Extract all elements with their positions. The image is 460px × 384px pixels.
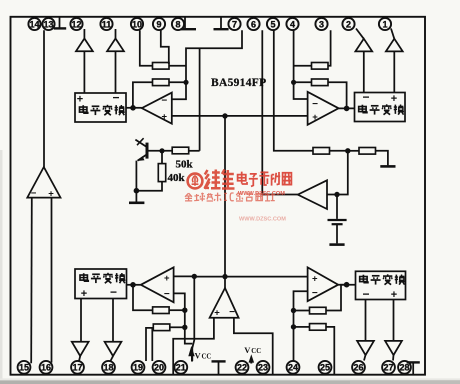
pin 9 (153, 18, 165, 30)
svg-text:6: 6 (251, 19, 256, 29)
pin 1 (379, 18, 391, 30)
output node dot (344, 282, 350, 288)
resistor 40k (vertical) (161, 151, 163, 164)
svg-text:−: − (112, 91, 119, 105)
svg-text:11: 11 (102, 19, 112, 29)
pin 3 (315, 18, 327, 30)
wire pin12 to buffer B1 (83, 29, 85, 39)
svg-text:+: + (48, 189, 54, 200)
wire pin9 jog to RA right (161, 30, 169, 64)
buffer B7 (down) (357, 341, 374, 355)
pin 2 (342, 18, 354, 30)
node dots on pin24 riser (291, 308, 296, 313)
svg-text:−: − (362, 287, 369, 301)
svg-text:−: − (110, 285, 117, 299)
wire R4 to output (328, 82, 347, 108)
watermark logo circle (188, 174, 203, 189)
svg-text:28: 28 (399, 363, 409, 373)
pin 14 (28, 18, 40, 30)
buffer B6 (down) (105, 342, 122, 356)
resistor 50k (172, 147, 189, 154)
svg-text:+: + (312, 273, 318, 284)
svg-text:40k: 40k (168, 172, 186, 184)
buffer B3 (up) (355, 39, 372, 52)
emitter junction dot (134, 188, 140, 194)
wire B6 to pin18 (111, 356, 114, 361)
resistor R8 input (310, 324, 327, 331)
svg-text:25: 25 (320, 363, 330, 373)
svg-text:23: 23 (258, 363, 268, 373)
pin 13 (42, 18, 54, 30)
pin 19 (132, 361, 145, 374)
wire R7 to output (326, 285, 347, 311)
pin 22 (236, 361, 249, 374)
wire 50k line from bus (199, 48, 201, 151)
svg-text:V: V (195, 350, 202, 360)
resistor RA (153, 63, 170, 70)
svg-text:27: 27 (383, 363, 393, 373)
minus input wire to riser (174, 293, 193, 343)
buffer B1 (up) (76, 39, 93, 52)
resistor R5 feedback (153, 307, 170, 314)
wire pin20 riser (151, 328, 153, 361)
wire pin2 to buffer B3 (356, 29, 364, 39)
pin 10 (131, 18, 143, 30)
op-amp U2 (points left) (142, 93, 172, 124)
pin 8 (172, 18, 184, 30)
resistor R7 feedback (310, 307, 327, 314)
wire pin10 down to RA (140, 30, 153, 66)
op-amp U8 (apex up) (210, 288, 239, 318)
svg-text:−: − (164, 289, 170, 300)
wire buffer B1 to box (83, 51, 85, 93)
NC tick before pin 7 (214, 18, 229, 30)
wire box to buffer B7 (365, 300, 367, 341)
wire output to box (339, 107, 355, 109)
output node dot (130, 105, 136, 111)
resistor R4 feedback (312, 79, 329, 86)
svg-text:+: + (162, 112, 168, 123)
level shifter U5 box (355, 90, 406, 121)
resistor R6 input (153, 324, 170, 331)
svg-text:+: + (312, 112, 318, 123)
buffer B4 (up) (386, 39, 403, 52)
ground G3 (329, 243, 344, 246)
svg-text:+: + (164, 273, 170, 284)
pin 12 (70, 18, 82, 30)
op-amp A1 labels (31, 188, 55, 200)
watermark big text 维库 (204, 170, 235, 189)
pin 11 (100, 18, 112, 30)
wire dot to R8 (294, 326, 310, 328)
svg-text:BA5914FP: BA5914FP (211, 77, 266, 89)
U8 left leg to frame (173, 318, 214, 374)
Vcc arrow left (188, 346, 194, 356)
svg-text:V: V (244, 345, 251, 355)
NC tick after pin 13 (54, 18, 66, 29)
resistor RB (feedback) (153, 79, 170, 86)
op-amp U4 (points right) (308, 92, 339, 125)
wire box to buffer B5 (80, 299, 82, 342)
bias dot BL (192, 274, 197, 279)
level shifter U10 box (356, 271, 406, 301)
pin 6 (247, 18, 259, 30)
wire output to box (338, 284, 355, 286)
svg-text:3: 3 (319, 19, 324, 29)
svg-text:2: 2 (346, 19, 351, 29)
watermark text 电子市场网 (238, 171, 292, 186)
bias rail horizontal (194, 276, 307, 278)
wire node X2 to R4 (294, 81, 312, 83)
ground G2 (380, 165, 395, 168)
resistor R1 divider (313, 148, 330, 155)
svg-text:24: 24 (288, 363, 298, 373)
emitter wire down (135, 161, 137, 191)
op-amp U9 (points right) (308, 267, 339, 301)
svg-text:−: − (31, 188, 37, 199)
wire to op-amp U8 apex (224, 277, 226, 288)
pin 5 (267, 18, 279, 30)
Q1 emitter with arrow (138, 154, 147, 160)
pin 20 (153, 361, 166, 374)
pin 21 (174, 361, 187, 374)
wire R2 to ground G2 (376, 151, 388, 166)
wire node N down to buffer input (327, 151, 348, 195)
wire R5 to dot (169, 309, 185, 311)
wire box to buffer B6 (112, 299, 114, 342)
wire pin6 down to buffer output (262, 30, 298, 194)
svg-text:+: + (81, 288, 87, 300)
bus wire pins 7/6 region (172, 30, 242, 99)
wire pin24 riser to minus input (294, 291, 308, 361)
svg-text:19: 19 (133, 363, 143, 373)
pin 24 (287, 361, 300, 374)
ground G1 (135, 191, 137, 202)
resistor R3 input (312, 63, 329, 70)
wire R3 to pin3 (328, 30, 331, 66)
svg-text:−: − (312, 288, 318, 299)
cap node dot (334, 192, 339, 197)
pin 15 (18, 361, 31, 374)
wire box to op-amp U7 (127, 284, 141, 286)
svg-text:12: 12 (71, 19, 81, 29)
NC tick after pin 8 (181, 18, 196, 30)
svg-text:50k: 50k (176, 159, 194, 171)
svg-text:15: 15 (19, 363, 29, 373)
svg-text:+: + (214, 308, 220, 319)
wire RA to node X (169, 65, 186, 67)
transistor Q1 base bar (146, 143, 149, 159)
watermark slogan line (185, 192, 275, 201)
svg-text:CC: CC (202, 353, 212, 360)
wire box to buffer B8 (393, 300, 395, 341)
wire dot to R7 (294, 310, 310, 312)
level shifter U1 box (75, 91, 126, 123)
wire 50k to riser (189, 150, 200, 152)
wire B5 to pin17 (79, 356, 80, 361)
wire RB to node X (169, 81, 186, 83)
svg-text:21: 21 (176, 363, 186, 373)
wire node N to R2 (348, 150, 359, 152)
wire node to R3 (294, 65, 312, 67)
wire buffer B2 to box (115, 51, 117, 93)
svg-text:7: 7 (232, 19, 237, 29)
op-amp U3 (points left) (298, 180, 327, 209)
svg-text:16: 16 (41, 363, 51, 373)
op-amp A1 (large, apex up) (27, 167, 60, 198)
wire pin5 down to divider (274, 30, 313, 151)
plus input wire to bias dot (174, 275, 195, 277)
wire R6 to dot (170, 326, 185, 328)
wire pin1 to buffer B4 (391, 29, 394, 39)
pin 18 (102, 361, 115, 374)
buffer B2 (up) (107, 39, 124, 52)
wire B7 to pin26 (364, 355, 366, 361)
svg-text:22: 22 (237, 363, 247, 373)
wire B8 to pin27 (392, 355, 395, 361)
wire pin13 to amp output (43, 30, 45, 167)
pin 23 (257, 361, 270, 374)
pin 7 (228, 18, 240, 30)
bias dot mid (222, 274, 227, 279)
NC tick right of pin 28 (407, 362, 420, 374)
output node dot (130, 282, 136, 288)
wire pin19 to R6 (146, 328, 153, 361)
bias wire to plus input (225, 115, 308, 117)
Q1 collector stub (135, 140, 146, 147)
svg-text:−: − (229, 307, 235, 318)
feedback dots (182, 308, 187, 313)
NC tick left of pin 22 (212, 361, 226, 374)
svg-text:+: + (77, 94, 83, 106)
op-amp U7 (points left) (141, 267, 174, 302)
capacitor C1 (336, 195, 338, 219)
resistor R2 divider (359, 148, 376, 155)
node N dot (345, 148, 350, 153)
svg-text:10: 10 (132, 19, 142, 29)
svg-text:WWW.DZSC.COM: WWW.DZSC.COM (239, 216, 286, 222)
buffer B5 (down) (72, 342, 89, 356)
pin 27 (382, 361, 395, 374)
output node dot (344, 106, 350, 112)
wire pin4 down to minus input (294, 30, 308, 99)
bias rail vertical (224, 116, 226, 277)
svg-text:−: − (312, 99, 318, 110)
wire R1 to node N (330, 150, 348, 152)
pin 16 (40, 361, 53, 374)
svg-text:1: 1 (382, 19, 387, 29)
svg-text:+: + (391, 289, 397, 301)
wire box to op-amp U2 (126, 107, 142, 109)
wire buffer B3 to box (363, 51, 365, 92)
feedback wire to output (133, 285, 153, 310)
base node dot (159, 148, 164, 153)
svg-text:8: 8 (175, 19, 180, 29)
pin 25 (319, 361, 332, 374)
Vcc arrow mid (249, 354, 255, 362)
Vcc feed wire from bias (192, 276, 194, 361)
wire buffer B4 to box (393, 51, 395, 92)
wire pin11 to buffer B2 (115, 29, 117, 39)
level shifter U6 box (75, 269, 127, 300)
U8 right leg to frame (234, 318, 273, 374)
svg-text:5: 5 (270, 19, 275, 29)
svg-text:9: 9 (156, 19, 161, 29)
wire plus input to bias node (172, 115, 225, 117)
svg-text:CC: CC (251, 348, 261, 355)
Q1 collector tick (137, 138, 144, 145)
svg-text:18: 18 (103, 363, 113, 373)
pin 28 (398, 361, 411, 374)
node X junction dot (183, 80, 188, 85)
pin 17 (71, 361, 84, 374)
svg-text:+: + (391, 93, 397, 105)
node X2 dot (291, 80, 296, 85)
left scan edge tint (0, 150, 3, 384)
pin 4 (286, 18, 298, 30)
svg-text:4: 4 (290, 19, 295, 29)
bottom scanner edge strip (0, 380, 460, 384)
buffer B8 (down) (385, 341, 402, 355)
wire RB to output node (133, 82, 153, 108)
svg-text:13: 13 (43, 19, 53, 29)
svg-text:14: 14 (29, 19, 39, 29)
pin 26 (352, 361, 365, 374)
wire amp leg to pin 16 (51, 198, 53, 363)
svg-text:−: − (161, 95, 167, 106)
svg-text:17: 17 (72, 363, 82, 373)
svg-text:20: 20 (154, 363, 164, 373)
wire amp leg to pin 15 (30, 198, 33, 364)
svg-text:26: 26 (353, 363, 363, 373)
base wire (149, 150, 173, 152)
wire R8 to pin25 frame (326, 327, 334, 374)
bias node dot top (222, 113, 227, 118)
